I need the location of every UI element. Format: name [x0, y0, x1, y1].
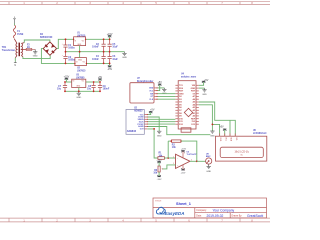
svg-text:L: L [14, 16, 16, 19]
svg-text:VCC: VCC [140, 114, 144, 116]
svg-text:VI: VI [73, 81, 75, 83]
capacitor C1 [65, 39, 67, 45]
wire U3 rails [65, 81, 72, 83]
svg-text:A4: A4 [193, 104, 197, 107]
svg-text:VO: VO [83, 61, 86, 63]
svg-text:TITLE:: TITLE: [155, 201, 162, 203]
LCD U6 [216, 136, 267, 161]
svg-text:U6: U6 [253, 130, 257, 132]
svg-text:I2C: I2C [240, 155, 243, 157]
svg-text:1000u: 1000u [68, 60, 75, 62]
svg-text:+5V: +5V [219, 126, 224, 129]
svg-text:D11: D11 [179, 121, 184, 123]
svg-text:GND: GND [78, 59, 83, 61]
resistor R1 [158, 157, 165, 160]
net flag arrowheads [65, 36, 227, 177]
svg-text:3V3: 3V3 [191, 121, 196, 123]
ground (arduino) [199, 87, 205, 89]
potentiometer R3 (offset) [158, 166, 160, 172]
wire bridge dc+ to positive rail [57, 39, 74, 48]
svg-text:10uF: 10uF [112, 47, 118, 49]
wire LCD SDA up to staircase [229, 120, 231, 136]
svg-text:CLK: CLK [149, 99, 154, 101]
wire AD9833 agnd to shared gnd [147, 127, 210, 135]
svg-text:D4: D4 [40, 33, 44, 36]
ground (BNC) [207, 164, 211, 169]
svg-text:C6: C6 [112, 56, 116, 58]
capacitor C5 [109, 39, 111, 44]
svg-text:A0: A0 [193, 115, 197, 118]
wire transformer top tap to bridge [24, 40, 50, 43]
wire transformer bottom tap to bridge [23, 55, 50, 58]
svg-text:-15V: -15V [181, 172, 186, 174]
ground (center tap) [33, 49, 37, 54]
svg-text:F1: F1 [17, 31, 20, 33]
svg-text:TR1: TR1 [2, 47, 7, 49]
fuse F1 [13, 25, 15, 38]
svg-text:U3: U3 [76, 75, 80, 77]
svg-text:N: N [14, 64, 16, 67]
wire R2 to output node [181, 141, 197, 161]
svg-text:D4: D4 [179, 101, 183, 104]
svg-text:OUT: OUT [140, 129, 145, 131]
fuse F2 (center tap) [24, 48, 27, 50]
svg-text:GND: GND [219, 137, 221, 142]
svg-text:DGND: DGND [138, 117, 144, 119]
bridge rectifier D4 [43, 42, 56, 55]
svg-text:GND: GND [122, 57, 127, 59]
svg-text:LM7815: LM7815 [77, 35, 86, 37]
svg-text:C5: C5 [112, 44, 116, 46]
svg-text:A1: A1 [193, 112, 197, 115]
BNC connector U8 [206, 158, 212, 164]
svg-text:10k: 10k [172, 147, 177, 149]
ground (AD9833) [157, 131, 161, 133]
wire encoder DT to arduino [157, 95, 175, 97]
svg-text:A5: A5 [193, 101, 197, 104]
arduino pin labels left [179, 85, 184, 126]
svg-text:VO: VO [82, 81, 85, 83]
arduino nano U4 [178, 81, 196, 129]
svg-text:BNC: BNC [206, 156, 211, 158]
svg-text:D10: D10 [179, 118, 184, 120]
svg-text:10u: 10u [57, 89, 62, 91]
svg-text:C8: C8 [88, 86, 92, 88]
svg-text:D7: D7 [179, 110, 183, 112]
svg-text:GND: GND [157, 135, 162, 137]
svg-text:R2: R2 [172, 144, 176, 146]
svg-text:arduino_nano: arduino_nano [181, 77, 197, 79]
svg-text:Transformer: Transformer [2, 50, 16, 52]
net flag N (mains neutral) [14, 58, 16, 62]
svg-text:D6: D6 [179, 107, 183, 109]
svg-text:100nF: 100nF [103, 89, 110, 91]
svg-text:16x2 LCD-i2c: 16x2 LCD-i2c [234, 151, 249, 154]
svg-text:100nF: 100nF [92, 59, 99, 61]
resistor R2 (feedback) [168, 140, 171, 142]
svg-text:Date:: Date: [196, 215, 202, 218]
sheet frame bottom band [0, 218, 270, 222]
svg-text:R1: R1 [159, 153, 163, 155]
svg-text:LM7805: LM7805 [76, 77, 85, 79]
svg-text:-15V: -15V [107, 68, 112, 71]
regulator U3 LM7805 [72, 79, 86, 87]
svg-text:C1: C1 [68, 45, 72, 47]
capacitor C9 [99, 82, 101, 86]
regulator U2 LM7915 [75, 58, 87, 66]
svg-text:A3: A3 [193, 106, 197, 109]
wire AD9833 sdata to arduino [147, 118, 175, 120]
op-amp U5 [176, 154, 191, 168]
net flag +5V (LCD vcc) [224, 129, 226, 136]
svg-text:RST: RST [179, 91, 184, 93]
net flag +5V (arduino) [199, 81, 204, 85]
ground (encoder) [162, 88, 166, 92]
capacitor C7 [64, 82, 66, 86]
svg-text:D8: D8 [179, 113, 183, 115]
svg-text:AD9833: AD9833 [127, 130, 137, 133]
svg-text:REF: REF [191, 118, 196, 120]
svg-text:Sheet_1: Sheet_1 [176, 201, 192, 206]
svg-text:GreatScott: GreatScott [247, 214, 263, 218]
svg-text:GND: GND [76, 97, 81, 99]
svg-text:A2: A2 [193, 109, 197, 112]
arduino right pin stubs [196, 85, 199, 124]
polarity marks C1 C2 [62, 44, 64, 57]
svg-text:D13: D13 [191, 124, 196, 126]
wire arduino gnd down to shared gnd [199, 105, 213, 131]
svg-text:TX1: TX1 [179, 85, 184, 87]
svg-text:VI: VI [76, 61, 78, 63]
svg-text:GND: GND [179, 93, 184, 95]
net flag -15V (op-amp V-) [182, 165, 184, 170]
capacitor C2 [65, 52, 67, 57]
sheet frame top band [0, 2, 270, 5]
svg-text:C2: C2 [68, 57, 72, 59]
svg-text:C9: C9 [103, 86, 107, 88]
node R1/R2 junction [167, 157, 169, 159]
svg-text:DT: DT [151, 96, 154, 98]
svg-text:C4: C4 [96, 55, 100, 58]
svg-text:B250C1500: B250C1500 [40, 37, 53, 39]
arduino usb connector [181, 128, 191, 132]
svg-text:U7: U7 [137, 78, 141, 80]
svg-text:EasyEDA: EasyEDA [165, 211, 185, 216]
svg-text:GND: GND [191, 88, 196, 90]
arduino left pin stubs [175, 85, 178, 124]
svg-text:1000u: 1000u [68, 48, 75, 50]
svg-text:D9: D9 [179, 116, 183, 118]
svg-text:GND: GND [33, 56, 38, 58]
svg-text:FUSE: FUSE [17, 34, 24, 36]
svg-text:VI: VI [74, 41, 76, 43]
svg-text:RX0: RX0 [179, 88, 184, 90]
svg-text:U2: U2 [77, 68, 81, 70]
svg-text:-: - [177, 158, 178, 160]
svg-text:SCL: SCL [235, 137, 237, 141]
capacitor C8 [93, 82, 95, 86]
EasyEDA logo [156, 207, 165, 214]
wire AD9833 dgnd [147, 117, 159, 131]
ground (near LCD) [210, 131, 214, 133]
regulator U1 LM7815 [74, 37, 86, 46]
arduino diamond logo [184, 108, 192, 116]
wire R1 to op-amp inverting input [164, 157, 175, 159]
capacitor C4 [103, 52, 105, 57]
svg-text:Your Company: Your Company [213, 209, 235, 213]
rotary encoder U7 [130, 83, 154, 103]
svg-text:10u: 10u [87, 89, 92, 91]
pin connection dots [147, 87, 158, 127]
svg-text:LM7915: LM7915 [77, 70, 86, 72]
svg-text:VIN: VIN [192, 85, 196, 87]
svg-text:GND: GND [149, 88, 154, 90]
svg-text:RotaryEncoder: RotaryEncoder [137, 80, 154, 83]
net flag +5V (AD9833 vcc) [147, 112, 150, 115]
ground (U3) [77, 91, 81, 95]
transformer TR1 [14, 39, 24, 58]
wire U3 gnd pin [78, 88, 80, 92]
wire AD9833 sclk to arduino [147, 121, 175, 123]
svg-text:SCLK: SCLK [139, 121, 145, 123]
svg-text:F2: F2 [27, 45, 30, 47]
svg-text:A7: A7 [193, 95, 197, 98]
svg-text:R3: R3 [154, 170, 158, 172]
net flag L (mains live) [13, 19, 16, 24]
svg-text:10k: 10k [153, 173, 158, 175]
wire live to fuse [14, 24, 16, 26]
svg-text:U8: U8 [206, 154, 210, 156]
svg-text:+15V: +15V [181, 149, 187, 151]
svg-text:GND: GND [202, 94, 207, 96]
wire encoder CLK to arduino [157, 98, 175, 100]
wire bridge dc- to negative rail [41, 49, 75, 64]
svg-text:Company:: Company: [196, 210, 207, 212]
svg-text:D12: D12 [179, 124, 184, 126]
junction node out [153, 128, 155, 130]
svg-text:D3: D3 [179, 99, 183, 101]
svg-text:LCD1602-i2c: LCD1602-i2c [253, 133, 268, 135]
svg-text:10uF: 10uF [112, 59, 118, 61]
wire op-amp output [190, 160, 197, 162]
junction dots power rails [65, 38, 111, 64]
wire U1 gnd pin [79, 46, 81, 52]
wire gnd mid rail [66, 51, 125, 53]
wire encoder SW to arduino [157, 93, 175, 95]
wire AD9833 fsync to arduino [147, 123, 175, 125]
wire feedback down from R2 [167, 141, 169, 158]
svg-text:SDA: SDA [230, 137, 233, 141]
net flag -15V (bottom rail) [109, 63, 111, 67]
svg-text:VCC: VCC [149, 90, 154, 92]
svg-text:Drawn By:: Drawn By: [232, 215, 243, 218]
wire arduino A5 to LCD SCL (staircase) [199, 102, 236, 136]
AD9833 module U2 [126, 110, 144, 135]
svg-text:7: 7 [184, 153, 185, 155]
ground (mid rail) [122, 52, 126, 56]
title block [153, 198, 267, 218]
svg-text:FSYNC: FSYNC [138, 124, 145, 126]
net flag -15V (pot bottom) [158, 172, 160, 177]
svg-text:2A: 2A [27, 46, 30, 49]
wire U2 gnd pin [79, 52, 81, 58]
svg-text:U1: U1 [77, 33, 81, 35]
svg-text:GND: GND [76, 86, 81, 88]
svg-text:2019-09-02: 2019-09-02 [207, 214, 224, 218]
arduino pin labels right [191, 85, 196, 126]
net flag +15V (op-amp V+) [182, 151, 184, 158]
net flag +5V (encoder vcc) [157, 84, 160, 91]
net flag +5V (output of U3) [99, 79, 101, 82]
svg-text:100nF: 100nF [92, 47, 99, 49]
svg-text:A6: A6 [193, 98, 197, 101]
svg-text:GND: GND [206, 171, 211, 173]
capacitor C3 [103, 39, 105, 44]
svg-text:5V: 5V [193, 93, 196, 95]
svg-text:RST: RST [191, 91, 196, 93]
svg-text:D5: D5 [179, 105, 183, 107]
svg-text:GND: GND [210, 135, 215, 137]
wire LCD gnd pin up and left [212, 124, 219, 136]
svg-text:-15V: -15V [157, 179, 162, 181]
junction dots U3 rails [64, 81, 101, 92]
wire pot wiper to op-amp non-inverting input [163, 165, 176, 169]
svg-text:U4: U4 [181, 73, 185, 76]
svg-text:+5V: +5V [150, 109, 155, 112]
net flag +15V (top rail) [109, 36, 111, 40]
svg-text:+5V: +5V [204, 79, 209, 82]
wire encoder gnd [157, 87, 164, 89]
svg-text:C7: C7 [58, 86, 62, 88]
wire AD9833 out down to R1 [147, 129, 158, 158]
svg-text:C3: C3 [96, 44, 100, 46]
capacitor C6 [109, 52, 111, 57]
svg-text:SW: SW [150, 94, 153, 96]
svg-text:U5: U5 [187, 151, 190, 153]
svg-text:VO: VO [82, 41, 85, 43]
svg-text:VCC: VCC [224, 137, 226, 141]
wire output to BNC [197, 160, 206, 162]
svg-text:GND: GND [77, 44, 82, 46]
svg-text:D2: D2 [179, 96, 183, 98]
